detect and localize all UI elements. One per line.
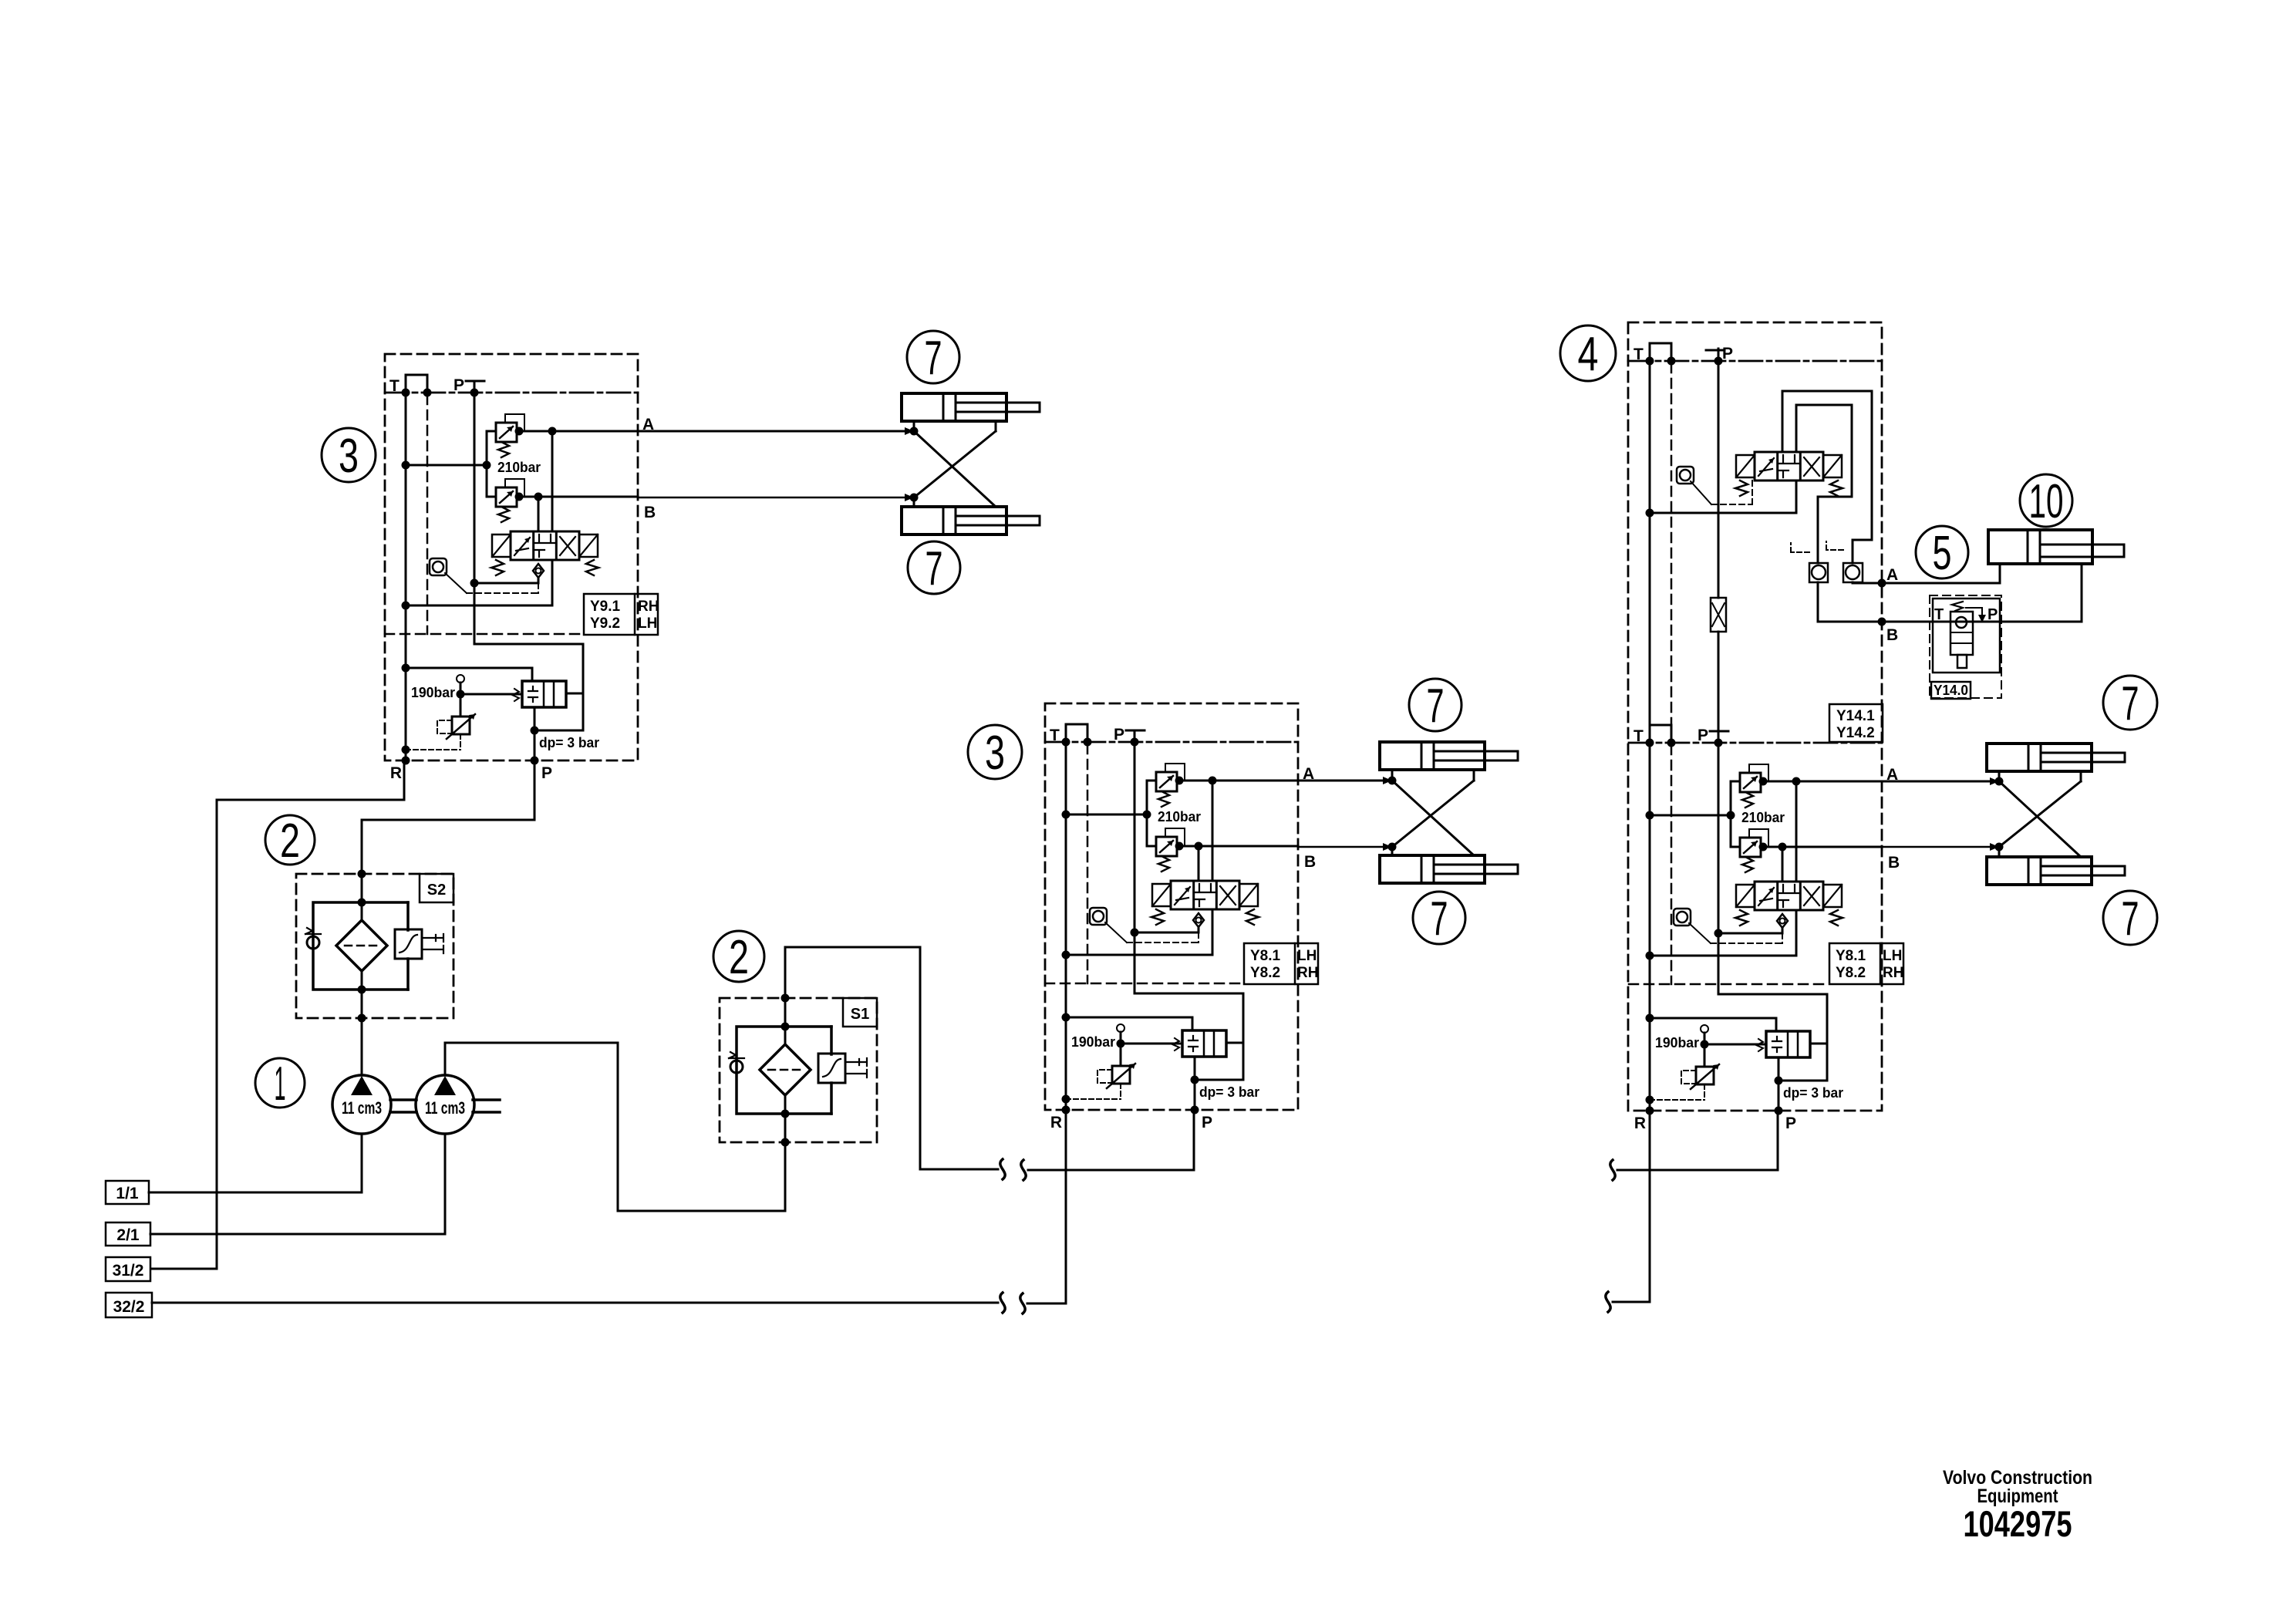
B line left pair [638, 497, 914, 499]
svg-text:Y14.1: Y14.1 [1836, 708, 1875, 724]
svg-text:31/2: 31/2 [113, 1262, 144, 1280]
valve block 3 middle internals [1045, 724, 1316, 1131]
wiring: pump2 to S1 bottom [445, 1043, 785, 1211]
wiring: block3 TL R port down to 31/2 [152, 760, 404, 1269]
balloon 7 (middle pair bottom cylinder) [1413, 892, 1465, 946]
svg-text:RH: RH [1883, 965, 1903, 981]
svg-text:3: 3 [985, 727, 1005, 780]
block 3 top-left: outer dashed rect [385, 354, 638, 760]
svg-text:Y8.2: Y8.2 [1836, 965, 1866, 981]
label box Y8.1/Y8.2 middle block [1244, 943, 1318, 984]
balloon 7 (right pair top cylinder) [2103, 676, 2157, 730]
cylinder 10 [1988, 530, 2124, 564]
directional valve upper [1735, 452, 1843, 496]
label box Y14.1/Y14.2 [1829, 704, 1883, 742]
label box Y9.1/Y9.2 top-left block [584, 594, 659, 635]
svg-text:Y8.2: Y8.2 [1250, 965, 1280, 981]
balloon 7 (left pair top cylinder) [907, 331, 959, 385]
balloon 7 (middle pair top cylinder) [1409, 679, 1462, 733]
svg-text:10: 10 [2029, 475, 2064, 528]
svg-text:2/1: 2/1 [116, 1226, 140, 1244]
cylinder pair left [638, 393, 1040, 534]
dash-dot port line [1628, 360, 1882, 363]
cylinder pair middle [1298, 742, 1518, 883]
connection tag 1/1 [106, 1181, 149, 1204]
svg-text:S1: S1 [851, 1006, 869, 1023]
svg-text:Y14.2: Y14.2 [1836, 725, 1875, 741]
svg-text:RH: RH [1297, 965, 1318, 981]
ball symbol [1677, 467, 1694, 484]
svg-text:1: 1 [275, 1057, 286, 1111]
valve block 3 top-left internals [385, 375, 656, 782]
svg-text:3: 3 [339, 430, 359, 483]
svg-text:T: T [1934, 606, 1944, 623]
wiring: S2 to pump1 [361, 1018, 363, 1075]
balloon 7 (right pair bottom cylinder) [2103, 891, 2157, 946]
svg-text:32/2: 32/2 [113, 1298, 145, 1316]
pilot check valve 1 [1791, 543, 1828, 582]
connection tag 2/1 [106, 1222, 150, 1246]
balloon 5 (pilot check valves) [1916, 526, 1968, 580]
svg-text:7: 7 [2122, 892, 2139, 946]
svg-text:1042975: 1042975 [1964, 1503, 2072, 1544]
dashed vertical [1671, 363, 1673, 737]
valve to check valves piping [1782, 391, 1872, 563]
Y14.0 pilot valve assembly [1930, 595, 2001, 699]
balloon 2 (filter S2) [265, 814, 315, 868]
svg-text:A: A [1886, 566, 1898, 584]
pilot check valve 2 [1826, 541, 1863, 582]
svg-text:1/1: 1/1 [116, 1185, 139, 1202]
valve block lower right internals [1629, 725, 1900, 1132]
wiring: right block R drop [1613, 1111, 1650, 1302]
connection tag 32/2 [106, 1293, 152, 1317]
svg-text:2: 2 [280, 814, 300, 868]
cylinder pair right [1882, 744, 2125, 885]
svg-text:S2: S2 [427, 882, 446, 899]
balloon 4 (right tall block) [1560, 325, 1616, 381]
pump shaft lines [390, 1100, 500, 1112]
svg-text:Y8.1: Y8.1 [1836, 948, 1866, 964]
balloon 7 (left pair bottom cylinder) [908, 541, 960, 595]
pump 1 [332, 1075, 391, 1134]
balloon 3 (middle valve block) [968, 725, 1022, 780]
T loop [1650, 343, 1671, 361]
svg-text:LH: LH [1883, 948, 1902, 964]
balloon 1 (pumps) [255, 1057, 305, 1111]
svg-text:7: 7 [1427, 679, 1445, 733]
block 4 right tall outer dashed rect [1628, 322, 1882, 1111]
svg-text:Y8.1: Y8.1 [1250, 948, 1281, 964]
wiring: S1 top to middle block P with hose break [785, 947, 998, 1169]
svg-text:B: B [1886, 626, 1898, 644]
svg-text:T: T [1633, 346, 1644, 363]
B line block4 [1818, 564, 2082, 622]
svg-text:4: 4 [1578, 328, 1599, 381]
filter S2 [296, 870, 453, 1023]
balloon 10 (cylinder 10) [2020, 474, 2072, 528]
A line block4 [1818, 582, 1853, 622]
left vertical T rail [1649, 361, 1651, 743]
label box Y8.1/Y8.2 right block [1829, 943, 1903, 984]
svg-text:P: P [1988, 606, 1998, 623]
svg-text:Y9.2: Y9.2 [590, 615, 620, 632]
A line left pair [638, 430, 914, 433]
svg-text:7: 7 [925, 542, 943, 595]
T return line to valve [1650, 481, 1796, 513]
svg-text:7: 7 [2122, 677, 2139, 730]
svg-text:LH: LH [1297, 948, 1317, 964]
svg-text:Y9.1: Y9.1 [590, 599, 621, 615]
svg-text:5: 5 [1933, 527, 1952, 580]
wiring: pump1 to 1/1 [149, 1134, 362, 1192]
svg-text:2: 2 [729, 931, 749, 984]
pump 2 [416, 1075, 474, 1134]
wiring: pump2 to 2/1 [150, 1135, 445, 1234]
P vertical with orifice [1718, 349, 1720, 743]
balloon 2 (filter S1) [713, 931, 764, 984]
balloon 3 (top-left valve block) [322, 428, 376, 483]
scissor cross left [914, 421, 996, 507]
svg-text:Y14.0: Y14.0 [1934, 683, 1968, 698]
svg-text:7: 7 [1431, 892, 1448, 946]
svg-text:P: P [1722, 345, 1733, 363]
filter S1 [720, 994, 877, 1147]
svg-text:RH: RH [638, 599, 659, 615]
wiring: right block P drop [1617, 1111, 1778, 1170]
wiring: block3 TL P port down to S2 [362, 760, 534, 874]
wiring: 32/2 line to middle block R with hose break [152, 1302, 998, 1304]
connection tag 31/2 [106, 1257, 150, 1281]
svg-text:LH: LH [638, 615, 657, 632]
svg-text:7: 7 [925, 332, 942, 385]
block 3 middle: outer dashed rect [1045, 703, 1298, 1110]
